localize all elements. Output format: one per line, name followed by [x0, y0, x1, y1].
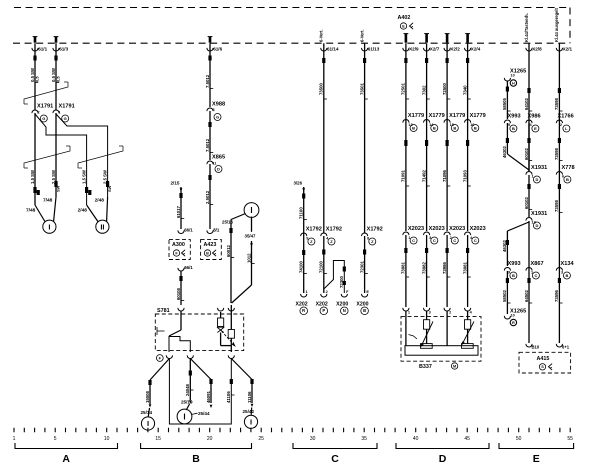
svg-text:X2/1: X2/1	[563, 47, 573, 52]
svg-text:G: G	[216, 114, 219, 119]
svg-text:2/48: 2/48	[95, 198, 105, 204]
svg-text:7/48: 7/48	[26, 208, 36, 214]
wire stub above bus x=210	[209, 37, 212, 43]
node X2/8 terminal	[528, 43, 530, 171]
S781 pole path 2	[169, 337, 190, 353]
svg-text:B: B	[192, 453, 200, 465]
S781 resistor left	[220, 312, 222, 318]
svg-text:58505: 58505	[502, 97, 507, 110]
contact circle G right	[62, 115, 69, 122]
svg-text:2/48: 2/48	[78, 208, 88, 214]
svg-text:X2/8: X2/8	[532, 47, 542, 52]
svg-text:X2/2: X2/2	[450, 47, 460, 52]
svg-text:X202: X202	[296, 302, 308, 308]
svg-text:A300: A300	[172, 242, 185, 248]
wire below X2023	[426, 235, 428, 307]
svg-text:46091: 46091	[206, 390, 211, 403]
node 8/1 into A423	[207, 230, 213, 233]
B337 wire2 with resistor	[426, 311, 428, 320]
sleeve terminal	[321, 294, 327, 297]
svg-text:66/1: 66/1	[184, 228, 193, 233]
wire E left to X1931	[506, 123, 508, 154]
svg-text:9: 9	[508, 123, 510, 127]
svg-text:1,5 SW: 1,5 SW	[81, 169, 86, 184]
entry hooks to A415	[526, 344, 532, 347]
splice	[446, 140, 449, 146]
svg-text:1: 1	[13, 436, 16, 442]
S781 contact X	[217, 328, 223, 333]
svg-text:61/3: 61/3	[59, 47, 68, 52]
wire D4 stub above bus	[466, 34, 469, 43]
wire E left lower	[506, 231, 508, 266]
svg-text:X1779: X1779	[470, 113, 486, 119]
svg-text:X2/7: X2/7	[430, 47, 440, 52]
crossover wire from pin1 to pair2 right	[56, 114, 108, 197]
svg-text:X865: X865	[212, 155, 225, 161]
svg-text:X200: X200	[336, 302, 348, 308]
splice	[404, 140, 407, 146]
svg-text:1012: 1012	[246, 253, 251, 263]
svg-text:25/44: 25/44	[198, 411, 210, 416]
svg-text:73598: 73598	[554, 147, 559, 160]
wire ground-I right lead 35/47	[251, 217, 253, 232]
svg-text:I: I	[147, 419, 149, 428]
ground point I	[43, 220, 56, 233]
svg-text:46302: 46302	[502, 145, 507, 158]
entry to B337	[465, 308, 471, 311]
svg-text:74100: 74100	[299, 260, 304, 273]
svg-text:73981: 73981	[462, 261, 467, 274]
svg-text:61017: 61017	[176, 205, 181, 218]
loop wire exit1-exit3	[169, 359, 231, 425]
node 66/1 below A300	[178, 268, 184, 271]
svg-text:7,5012: 7,5012	[205, 74, 210, 88]
svg-text:B337: B337	[419, 364, 432, 370]
svg-text:A: A	[62, 453, 70, 465]
svg-text:2: 2	[449, 311, 451, 315]
svg-text:X2023: X2023	[429, 226, 445, 232]
svg-text:N: N	[343, 308, 346, 313]
ground point II	[96, 220, 109, 233]
wire colour tick	[54, 56, 57, 61]
svg-text:E: E	[534, 126, 537, 131]
svg-text:71091: 71091	[401, 169, 406, 182]
node 61/13 terminal	[364, 43, 366, 233]
wire exit2 down	[189, 359, 191, 401]
svg-text:73598: 73598	[554, 199, 559, 212]
svg-text:61/13: 61/13	[368, 47, 380, 52]
node X2/4 terminal	[467, 43, 469, 231]
svg-text:2: 2	[560, 123, 562, 127]
sleeve terminal X200	[341, 294, 347, 297]
svg-text:9: 9	[508, 271, 510, 275]
svg-text:61/1: 61/1	[38, 47, 47, 52]
svg-text:X1779: X1779	[429, 113, 445, 119]
svg-text:X2/9: X2/9	[409, 47, 419, 52]
svg-text:X1791: X1791	[59, 104, 75, 110]
svg-text:B: B	[565, 273, 568, 278]
svg-text:I: I	[48, 222, 50, 231]
svg-text:X993: X993	[508, 114, 521, 120]
svg-text:X2023: X2023	[449, 226, 465, 232]
svg-text:61/6: 61/6	[213, 47, 222, 52]
B337 wire3	[446, 311, 448, 346]
wire pair1 right	[55, 113, 57, 197]
svg-text:X988: X988	[212, 102, 225, 108]
svg-text:73986: 73986	[442, 261, 447, 274]
svg-text:D: D	[535, 223, 538, 228]
splice tick	[85, 187, 88, 193]
S781 pole path 1	[168, 336, 170, 352]
contact circle D	[215, 166, 222, 173]
wire stub above bus x=56	[55, 37, 58, 43]
svg-text:S: S	[541, 365, 544, 369]
entry to B337	[424, 308, 430, 311]
svg-text:I: I	[250, 417, 252, 426]
contact circle	[369, 238, 376, 245]
svg-text:X202: X202	[316, 302, 328, 308]
svg-text:H: H	[512, 81, 515, 85]
wire exit1 diagonal to ground	[150, 359, 169, 381]
svg-text:6+1: 6+1	[562, 345, 570, 350]
svg-text:I: I	[250, 206, 252, 215]
resistor unit B337	[401, 317, 481, 362]
wire exit2 diagonal branch	[190, 359, 211, 380]
svg-text:61/14: 61/14	[327, 47, 339, 52]
wire D2 stub above bus	[425, 34, 428, 43]
svg-text:E: E	[366, 290, 369, 294]
wire D3 stub above bus	[446, 34, 449, 43]
measuring ruler ticks	[14, 428, 570, 432]
svg-text:35: 35	[361, 436, 367, 442]
svg-text:55: 55	[567, 436, 573, 442]
B337 wiper arrow right	[463, 322, 475, 344]
svg-text:60102: 60102	[524, 196, 529, 209]
contact circle	[328, 238, 335, 245]
zone brackets	[15, 443, 118, 449]
svg-text:45: 45	[464, 436, 470, 442]
B337 bus bar	[405, 346, 478, 356]
wire E main upper	[527, 88, 530, 93]
cable sheath upper	[24, 82, 68, 104]
node X2/7 terminal	[426, 43, 428, 231]
svg-text:15: 15	[155, 436, 161, 442]
svg-text:60108: 60108	[176, 287, 181, 300]
svg-text:73501: 73501	[359, 82, 364, 95]
svg-text:3/26: 3/26	[294, 181, 303, 186]
S781 entry hooks	[178, 308, 184, 311]
svg-text:X1792: X1792	[306, 227, 322, 233]
svg-text:B: B	[363, 308, 366, 313]
wire into A300	[180, 187, 182, 229]
control unit A423	[201, 240, 222, 260]
svg-text:D: D	[535, 177, 538, 182]
svg-text:72301: 72301	[359, 260, 364, 273]
wire below X2023	[405, 235, 407, 307]
svg-text:8/1: 8/1	[213, 228, 220, 233]
wire D1 stub above bus	[405, 34, 408, 43]
svg-text:25/42: 25/42	[243, 409, 255, 414]
svg-text:10: 10	[511, 314, 515, 318]
wire exit3 splice	[230, 379, 233, 384]
svg-text:64502: 64502	[524, 289, 529, 302]
node 61/6 terminal	[209, 43, 211, 107]
svg-text:X1779: X1779	[449, 113, 465, 119]
svg-text:C: C	[412, 238, 415, 243]
svg-text:1: 1	[408, 311, 410, 315]
svg-text:41106: 41106	[226, 391, 231, 403]
svg-text:R: R	[302, 308, 305, 313]
node 66/1 into A300	[178, 230, 184, 233]
wire below connector	[323, 236, 325, 293]
wire below X2023	[467, 235, 469, 307]
contact circle G	[214, 114, 221, 121]
svg-text:2/15: 2/15	[171, 181, 180, 186]
B337 wiper arrow left	[409, 335, 418, 340]
svg-text:D: D	[217, 166, 220, 171]
svg-text:1: 1	[532, 175, 534, 179]
svg-text:72100: 72100	[319, 260, 324, 273]
S781 switch arm	[169, 330, 181, 336]
svg-text:71100: 71100	[299, 207, 304, 219]
svg-text:B: B	[474, 125, 477, 130]
splice	[425, 140, 428, 146]
control unit A300	[169, 240, 190, 260]
bus dashed line top	[14, 7, 570, 9]
svg-text:3: 3	[561, 271, 563, 275]
svg-text:S781: S781	[157, 308, 170, 314]
svg-text:X1792: X1792	[367, 227, 383, 233]
svg-text:X778: X778	[562, 165, 575, 171]
bus dashed line right edge	[569, 8, 571, 44]
svg-text:25/19: 25/19	[181, 400, 193, 405]
wire E main mid2	[528, 175, 530, 217]
wire A300 to S781	[180, 271, 182, 305]
svg-text:X1779: X1779	[408, 113, 424, 119]
node X2/9 terminal	[405, 43, 407, 231]
svg-text:7/48: 7/48	[43, 198, 53, 204]
svg-text:72501: 72501	[401, 82, 406, 95]
svg-text:50: 50	[516, 436, 522, 442]
wire below connector	[364, 236, 366, 293]
wire C left short	[303, 187, 305, 293]
svg-text:30: 30	[310, 436, 316, 442]
svg-text:X1766: X1766	[558, 114, 574, 120]
svg-text:X2023: X2023	[408, 226, 424, 232]
svg-text:58502: 58502	[502, 289, 507, 302]
contact circle G left	[40, 115, 47, 122]
wire B mid	[209, 164, 211, 229]
svg-text:0,5: 0,5	[34, 76, 39, 82]
svg-text:Kl.44/Tastverh.: Kl.44/Tastverh.	[524, 13, 529, 42]
svg-text:X1931: X1931	[531, 211, 547, 217]
wire stub above bus x=35	[34, 37, 37, 43]
svg-text:40: 40	[413, 436, 419, 442]
svg-text:2,5012: 2,5012	[205, 190, 210, 204]
wire E main mid1	[528, 123, 530, 171]
svg-text:G: G	[64, 116, 67, 121]
svg-text:A402: A402	[398, 15, 411, 21]
svg-text:6-Vert.: 6-Vert.	[359, 29, 364, 42]
svg-text:20: 20	[207, 436, 213, 442]
ground point I bottom-mid	[177, 409, 192, 424]
svg-text:D: D	[439, 453, 447, 465]
svg-text:6: 6	[562, 175, 564, 179]
svg-text:73596: 73596	[554, 289, 559, 302]
wire E left upper	[506, 81, 508, 119]
svg-text:72500: 72500	[442, 82, 447, 95]
svg-text:X986: X986	[528, 114, 541, 120]
svg-text:35/47: 35/47	[245, 234, 257, 239]
svg-text:B: B	[453, 125, 456, 130]
svg-text:1: 1	[306, 290, 308, 294]
svg-text:71093: 71093	[462, 169, 467, 182]
entry to B337	[444, 308, 450, 311]
node 61/3 terminal	[55, 43, 57, 110]
svg-text:G: G	[42, 116, 45, 121]
svg-text:I: I	[183, 412, 185, 421]
wire E main lower	[528, 221, 530, 343]
node X2/1 terminal	[558, 43, 560, 343]
svg-text:B: B	[412, 125, 415, 130]
svg-text:71492: 71492	[421, 169, 426, 182]
svg-text:24048: 24048	[185, 383, 190, 396]
svg-text:15008: 15008	[145, 390, 150, 403]
S781 actuator dashed arrow	[222, 331, 234, 345]
svg-text:7340: 7340	[462, 85, 467, 95]
svg-text:II: II	[100, 222, 104, 231]
svg-text:10: 10	[104, 436, 110, 442]
wire B upper-mid	[209, 111, 211, 160]
wire ground-I to S781 left lead	[231, 214, 246, 220]
wire E right: connector X778	[558, 88, 561, 93]
bus dashed line lower	[13, 42, 570, 44]
svg-text:X993: X993	[508, 261, 521, 267]
svg-text:C: C	[331, 453, 339, 465]
S781 exit hooks	[166, 355, 172, 358]
svg-text:C: C	[453, 238, 456, 243]
svg-text:60102: 60102	[524, 147, 529, 160]
svg-text:0,5: 0,5	[55, 76, 60, 82]
svg-text:1,5 SW: 1,5 SW	[30, 169, 35, 184]
svg-text:B: B	[512, 273, 515, 278]
svg-text:5: 5	[54, 436, 57, 442]
svg-text:25: 25	[258, 436, 264, 442]
sleeve terminal X202	[301, 294, 307, 297]
ground point I bottom-left	[141, 417, 154, 430]
svg-text:C: C	[534, 273, 537, 278]
splice	[466, 140, 469, 146]
node 61/14 terminal	[323, 43, 325, 233]
contact circle F below S781	[156, 355, 163, 362]
svg-text:B: B	[433, 125, 436, 130]
svg-text:25/14: 25/14	[141, 410, 153, 415]
svg-text:7,5012: 7,5012	[205, 138, 210, 152]
wire colour tick	[33, 56, 36, 61]
ground point I upper	[244, 203, 259, 218]
svg-text:X134: X134	[561, 261, 575, 267]
B337 wire4 with resistor	[467, 311, 469, 320]
svg-text:X1792: X1792	[326, 227, 342, 233]
sleeve terminal	[362, 294, 368, 297]
svg-text:7302: 7302	[421, 85, 426, 95]
S781 static contact	[156, 327, 158, 335]
svg-text:B: B	[206, 251, 209, 255]
svg-text:R: R	[512, 321, 515, 325]
node X2/2 terminal	[446, 43, 448, 231]
wire below X2023	[446, 235, 448, 307]
cable sheath lower right	[78, 146, 123, 168]
svg-text:X1791: X1791	[37, 104, 53, 110]
svg-text:73982: 73982	[421, 261, 426, 274]
svg-text:60012: 60012	[226, 244, 231, 257]
svg-text:C: C	[474, 238, 477, 243]
node 61/1 terminal	[34, 43, 36, 110]
svg-text:X200: X200	[356, 302, 368, 308]
switch S781	[155, 314, 243, 351]
svg-text:10: 10	[511, 74, 515, 78]
svg-text:11106: 11106	[247, 391, 252, 403]
entry to B337	[403, 308, 409, 311]
svg-text:73598: 73598	[554, 97, 559, 110]
svg-text:X2/4: X2/4	[471, 47, 481, 52]
svg-text:M: M	[453, 364, 456, 368]
svg-text:B10: B10	[532, 345, 540, 350]
branch wire to X200	[324, 261, 345, 294]
svg-text:A423: A423	[204, 242, 217, 248]
svg-text:2: 2	[326, 290, 328, 294]
svg-text:X2023: X2023	[470, 226, 486, 232]
svg-text:E: E	[533, 453, 540, 465]
svg-text:64102: 64102	[524, 97, 529, 110]
svg-text:66/1: 66/1	[184, 265, 193, 270]
svg-text:73981: 73981	[401, 261, 406, 274]
B337 wire1	[405, 311, 407, 346]
svg-text:6-Vert.: 6-Vert.	[319, 29, 324, 42]
contact circle	[308, 238, 315, 245]
svg-text:P: P	[322, 308, 325, 313]
link to 25/44 label	[191, 413, 197, 414]
svg-text:B: B	[566, 177, 569, 182]
svg-text:Kl.44 ausgeregelt: Kl.44 ausgeregelt	[554, 7, 559, 42]
wire exit3 diagonal branch	[231, 359, 252, 380]
svg-text:C: C	[433, 238, 436, 243]
branch to left wire	[507, 222, 529, 231]
svg-text:X1931: X1931	[531, 165, 547, 171]
wire into ground	[35, 205, 45, 222]
wire below X1792 pin9	[302, 250, 305, 255]
svg-text:25/16: 25/16	[222, 220, 234, 225]
svg-text:3: 3	[429, 311, 431, 315]
svg-text:B: B	[512, 126, 515, 131]
wire to X1265 bottom	[506, 271, 508, 314]
crossover wire from pin2 to pair2 left	[35, 114, 87, 205]
svg-text:E: E	[402, 24, 405, 28]
S781 resistor right	[228, 330, 234, 339]
control unit A415	[519, 352, 571, 373]
svg-text:A415: A415	[537, 356, 550, 362]
wire into ground	[87, 205, 98, 222]
svg-text:71096: 71096	[442, 169, 447, 182]
ground point I bottom-right	[244, 415, 257, 428]
svg-text:X867: X867	[531, 261, 544, 267]
splice tick	[33, 187, 36, 193]
svg-text:73500: 73500	[319, 82, 324, 95]
wire pair1 left	[34, 113, 36, 205]
cable sheath lower left	[24, 146, 70, 168]
